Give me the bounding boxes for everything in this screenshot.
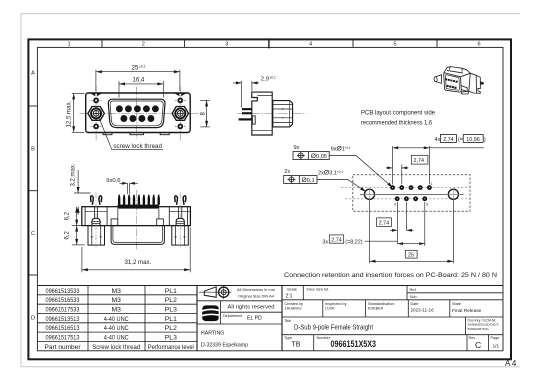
svg-text:Ø0,1: Ø0,1 xyxy=(302,177,315,184)
iso D-face xyxy=(444,73,462,92)
title block strip outline xyxy=(37,286,503,351)
svg-text:TB: TB xyxy=(292,341,301,348)
svg-text:Ref.: Ref. xyxy=(410,287,417,292)
svg-text:5000002578(II): 5000002578(II) xyxy=(468,327,489,331)
lower center body xyxy=(111,226,164,245)
front view centerlines xyxy=(80,87,199,141)
dim 2,74 bottom xyxy=(377,218,392,227)
svg-text:B: B xyxy=(31,146,35,152)
svg-text:2,9: 2,9 xyxy=(261,76,269,82)
svg-text:Performance level: Performance level xyxy=(148,344,194,351)
mounting tab right xyxy=(157,219,164,226)
svg-text:A4: A4 xyxy=(505,359,518,368)
dim 6,2 lower xyxy=(72,226,85,245)
svg-text:Title: Title xyxy=(284,319,291,323)
dim 2,9 xyxy=(233,81,259,108)
svg-text:Number: Number xyxy=(317,336,331,340)
svg-text:HARTING: HARTING xyxy=(201,331,224,337)
dim 2,74 top xyxy=(411,155,428,164)
svg-text:Standardisation: Standardisation xyxy=(368,302,394,306)
iso body bottom edge xyxy=(461,91,469,94)
svg-text:State: State xyxy=(452,302,461,306)
spring clip left xyxy=(91,196,102,205)
spring clip right xyxy=(175,196,186,205)
svg-text:Sub.: Sub. xyxy=(410,294,418,299)
svg-text:D-Sub 9-pole Female Straight: D-Sub 9-pole Female Straight xyxy=(294,323,373,332)
svg-text:D-32339 Espelkamp: D-32339 Espelkamp xyxy=(201,343,248,349)
svg-text:Connection retention and inser: Connection retention and insertion force… xyxy=(284,272,497,279)
screw lock right xyxy=(172,107,188,121)
iso mid screw cylinder xyxy=(458,85,467,92)
dim 25 pcb xyxy=(405,250,417,258)
svg-text:25: 25 xyxy=(408,253,414,259)
svg-text:(=8,22): (=8,22) xyxy=(345,240,362,246)
svg-text:Scale: Scale xyxy=(287,287,298,292)
dim 3,2 max xyxy=(74,170,91,215)
screw lock thread label xyxy=(99,118,163,150)
iso flange plate xyxy=(469,73,481,93)
right block grid xyxy=(282,286,503,351)
pads top row xyxy=(390,185,432,190)
svg-text:6: 6 xyxy=(477,42,480,48)
svg-text:16,4: 16,4 xyxy=(133,77,145,84)
svg-text:PL2: PL2 xyxy=(165,325,177,332)
pads bottom row xyxy=(395,196,427,201)
projection symbol (first angle) xyxy=(199,285,232,299)
svg-text:2,74: 2,74 xyxy=(379,221,390,227)
tol frame 2x xyxy=(284,169,317,184)
svg-text:ZHUANGJ: ZHUANGJ xyxy=(285,307,302,311)
bottom tabs xyxy=(103,133,169,135)
iso pin xyxy=(480,82,483,84)
svg-text:EL PD: EL PD xyxy=(247,316,262,322)
svg-text:Inspected by: Inspected by xyxy=(325,302,347,306)
pcb dashed outline xyxy=(353,175,470,212)
pin strip side walls xyxy=(117,209,119,219)
svg-text:6,2: 6,2 xyxy=(64,211,70,220)
svg-text:Created by: Created by xyxy=(285,302,304,306)
svg-text:4-40 UNC: 4-40 UNC xyxy=(104,316,129,323)
dim 16,4 xyxy=(119,81,163,98)
svg-text:(=: (= xyxy=(458,137,463,143)
svg-text:9xØ1: 9xØ1 xyxy=(331,146,345,153)
side latch rect xyxy=(252,116,255,124)
iso left screw post xyxy=(435,75,442,84)
svg-text:2,74: 2,74 xyxy=(414,158,425,164)
svg-text:LUOK: LUOK xyxy=(325,307,335,311)
rivet top-left xyxy=(91,98,102,104)
dim 8 xyxy=(200,100,210,127)
side view centerline xyxy=(237,112,307,114)
svg-text:2,74: 2,74 xyxy=(443,137,454,143)
flange band xyxy=(82,207,191,226)
svg-text:09661513533: 09661513533 xyxy=(46,288,80,295)
svg-text:A: A xyxy=(31,71,35,77)
screw centerline left xyxy=(95,193,97,248)
column ticks xyxy=(102,38,437,48)
svg-text:31,2 max.: 31,2 max. xyxy=(125,259,152,266)
front body outline xyxy=(86,93,191,133)
svg-text:2xØ3,1: 2xØ3,1 xyxy=(318,170,337,177)
svg-text:Screw lock thread: Screw lock thread xyxy=(92,344,140,351)
svg-text:D: D xyxy=(31,315,35,321)
svg-text:2023-11-16: 2023-11-16 xyxy=(411,308,435,313)
side shroud xyxy=(273,101,293,127)
contacts row 2 xyxy=(120,115,154,122)
svg-text:PL1: PL1 xyxy=(165,316,177,323)
left clip slot columns xyxy=(94,207,181,219)
HARTING logo xyxy=(202,305,219,321)
svg-text:4: 4 xyxy=(309,42,312,48)
svg-text:9x: 9x xyxy=(294,145,300,151)
svg-text:2x: 2x xyxy=(284,169,290,175)
svg-text:09661513513: 09661513513 xyxy=(46,316,80,323)
D-sub opening inner xyxy=(110,101,163,126)
svg-text:Part number: Part number xyxy=(45,344,82,351)
rivet bottom-left xyxy=(91,124,102,130)
flange internal verticals xyxy=(85,207,190,226)
svg-text:Page: Page xyxy=(491,336,500,340)
svg-text:2,74: 2,74 xyxy=(331,237,342,243)
iso D-face inner xyxy=(445,75,459,91)
screw lock left xyxy=(88,107,104,121)
contacts row 1 xyxy=(116,105,159,112)
svg-text:PL3: PL3 xyxy=(165,335,177,342)
svg-text:C: C xyxy=(475,340,481,350)
D-sub opening outer xyxy=(108,99,165,127)
svg-text:All Dimensions in mm: All Dimensions in mm xyxy=(237,287,275,292)
svg-text:M3: M3 xyxy=(111,307,121,314)
dim 9x0,6 xyxy=(120,183,138,194)
side pins xyxy=(239,108,252,120)
pin comb base xyxy=(118,205,160,209)
svg-text:4-40 UNC: 4-40 UNC xyxy=(104,325,129,332)
svg-text:Date: Date xyxy=(411,302,419,306)
top notch left screw xyxy=(91,94,102,97)
svg-text:M3: M3 xyxy=(111,297,121,304)
top view center line xyxy=(135,190,137,250)
svg-text:): ) xyxy=(484,137,486,143)
dim 25 +0,1 xyxy=(96,70,180,91)
part number table text xyxy=(45,288,195,351)
svg-text:All rights reserved: All rights reserved xyxy=(227,305,274,311)
svg-text:Final Release: Final Release xyxy=(452,308,482,314)
svg-text:M3: M3 xyxy=(111,288,121,295)
dim 6,2 upper xyxy=(72,207,84,226)
right nut dome xyxy=(176,218,184,225)
svg-text:Free size tol.: Free size tol. xyxy=(307,287,330,292)
svg-text:4-40 UNC: 4-40 UNC xyxy=(104,335,129,342)
svg-text:09661517533: 09661517533 xyxy=(46,307,80,314)
svg-text:C: C xyxy=(31,231,35,237)
screw centerline right xyxy=(179,193,181,248)
hole centerline solid xyxy=(360,193,464,195)
svg-text:recommended thickness 1,6: recommended thickness 1,6 xyxy=(361,120,432,127)
svg-text:9: 9 xyxy=(426,203,428,207)
side flange body xyxy=(252,92,272,135)
svg-text:PL1: PL1 xyxy=(165,288,177,295)
svg-text:0966151X5X3: 0966151X5X3 xyxy=(331,338,377,349)
row ticks xyxy=(28,106,37,275)
iso roof xyxy=(444,67,471,77)
svg-text:1/1: 1/1 xyxy=(493,344,500,350)
svg-text:+0,1: +0,1 xyxy=(344,146,351,150)
row letters A-D xyxy=(31,71,35,322)
middle block grid xyxy=(197,286,282,351)
column numbers 1-6 xyxy=(67,42,480,48)
iso holes row2 xyxy=(446,85,456,89)
svg-text:9x0,6: 9x0,6 xyxy=(106,178,120,184)
svg-text:09661516513: 09661516513 xyxy=(46,325,80,332)
leader 9x xyxy=(329,156,391,187)
left nut dome xyxy=(92,218,100,225)
svg-text:09661516533: 09661516533 xyxy=(46,297,80,304)
dim line 4x2,74 xyxy=(393,146,484,185)
svg-text:PCB layout component side: PCB layout component side xyxy=(361,110,435,117)
tol frame 9x xyxy=(293,145,329,160)
svg-text:HARTING: HARTING xyxy=(203,311,218,315)
svg-text:1: 1 xyxy=(67,42,70,48)
svg-text:2:1: 2:1 xyxy=(286,294,293,300)
outer frame xyxy=(28,39,511,359)
svg-text:10,96: 10,96 xyxy=(466,137,480,143)
svg-text:6,2: 6,2 xyxy=(64,230,70,239)
svg-text:6: 6 xyxy=(394,203,396,207)
svg-text:ROEBEN: ROEBEN xyxy=(368,307,384,311)
mounting tab left xyxy=(111,219,118,226)
svg-text:+0,1: +0,1 xyxy=(337,170,344,174)
svg-text:±0,1: ±0,1 xyxy=(270,75,277,79)
top notch right screw xyxy=(175,94,186,97)
dim 12,5 max xyxy=(72,93,85,132)
lower left post xyxy=(88,226,105,246)
svg-text:2: 2 xyxy=(142,42,145,48)
screw hole left xyxy=(363,188,376,200)
side flange inner lines xyxy=(252,96,272,131)
dim 31,2 max xyxy=(82,228,190,273)
svg-text:3,2 max.: 3,2 max. xyxy=(70,163,76,186)
inner frame xyxy=(37,47,503,350)
pad row centerlines dashed xyxy=(341,188,470,199)
svg-text:12,5 max.: 12,5 max. xyxy=(66,100,73,127)
svg-text:Ø0,05: Ø0,05 xyxy=(311,153,327,160)
rivet top-right xyxy=(175,98,186,104)
svg-text:09661517513: 09661517513 xyxy=(46,335,80,342)
screw hole right xyxy=(447,188,460,200)
svg-text:PL3: PL3 xyxy=(165,307,177,314)
svg-text:3: 3 xyxy=(225,42,228,48)
iso holes row1 xyxy=(445,78,458,83)
svg-text:Department: Department xyxy=(223,314,242,318)
svg-text:screw lock thread: screw lock thread xyxy=(114,143,163,150)
part number table grid xyxy=(196,286,198,351)
rivet bottom-right xyxy=(175,124,186,130)
svg-text:±0,1: ±0,1 xyxy=(139,64,146,68)
lower right post xyxy=(172,226,189,246)
svg-text:PL2: PL2 xyxy=(165,297,177,304)
svg-text:4x: 4x xyxy=(435,137,441,143)
pin comb teeth xyxy=(118,195,160,205)
svg-text:5: 5 xyxy=(393,42,396,48)
svg-text:3x: 3x xyxy=(322,240,328,246)
svg-text:1: 1 xyxy=(431,182,433,186)
svg-text:Original Size DIN A4: Original Size DIN A4 xyxy=(238,294,275,299)
svg-text:Type: Type xyxy=(284,336,292,340)
leader 2x xyxy=(317,180,364,191)
svg-text:25: 25 xyxy=(132,64,140,71)
